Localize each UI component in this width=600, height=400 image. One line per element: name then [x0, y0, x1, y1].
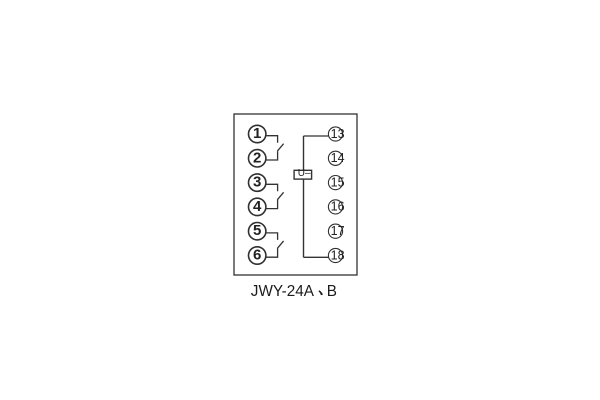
wire from 4: [266, 200, 278, 209]
coil U- box: [294, 170, 312, 179]
svg-text:2: 2: [253, 149, 261, 166]
terminal 17: [328, 224, 344, 238]
terminal 3: [249, 174, 266, 192]
terminal 5: [249, 222, 266, 240]
svg-text:16: 16: [331, 200, 345, 214]
terminal 13: [328, 127, 344, 141]
terminal 1: [249, 125, 266, 143]
svg-text:6: 6: [253, 247, 261, 264]
svg-text:18: 18: [331, 248, 345, 262]
terminal 2: [249, 149, 266, 167]
svg-text:5: 5: [253, 222, 261, 239]
svg-text:15: 15: [331, 175, 345, 189]
terminal 16: [328, 200, 344, 214]
contact K3 wires (terminals 5-6): [266, 233, 284, 257]
wire from 6: [266, 248, 278, 257]
wire from 2: [266, 151, 278, 160]
caption JWY-24A、B: [251, 283, 337, 300]
svg-text:17: 17: [331, 224, 345, 238]
terminal 6: [249, 247, 266, 265]
contact blade K3: [277, 241, 283, 249]
svg-text:1: 1: [253, 125, 261, 142]
contact blade K2: [277, 192, 283, 200]
svg-text:13: 13: [331, 127, 345, 141]
svg-text:JWY-24A: JWY-24A: [251, 283, 315, 300]
wire from 5: [266, 233, 278, 240]
contact K1 wires (terminals 1-2): [266, 136, 284, 160]
terminal 14: [328, 151, 344, 165]
wire from 13 to vertical bus: [304, 135, 329, 137]
svg-text:3: 3: [253, 174, 261, 191]
svg-text:14: 14: [331, 151, 345, 165]
terminal 15: [328, 175, 344, 189]
relay outline box: [234, 114, 357, 275]
wire from 3: [266, 184, 278, 191]
svg-text:U–: U–: [298, 168, 311, 179]
contact blade K1: [277, 144, 283, 152]
svg-text:B: B: [327, 283, 337, 300]
svg-text:4: 4: [253, 198, 262, 215]
terminal 18: [328, 248, 344, 262]
wire from 18 to vertical bus: [304, 256, 329, 258]
contact K2 wires (terminals 3-4): [266, 184, 284, 208]
terminal 4: [249, 198, 266, 216]
vertical bus wire: [303, 136, 305, 257]
wire from 1: [266, 136, 278, 143]
